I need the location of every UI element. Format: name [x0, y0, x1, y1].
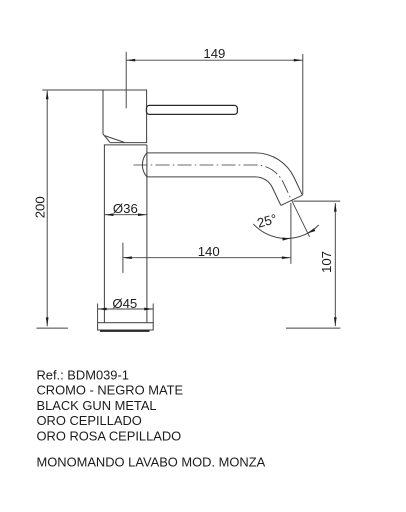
dimension D45 left arrow [98, 308, 107, 311]
dimension 107 top extension line [293, 200, 340, 202]
dimension D36 left arrow [105, 213, 114, 216]
dimension 149 right extension line [302, 54, 304, 195]
dimension 107 top arrow [334, 203, 337, 212]
svg-text:Ø36: Ø36 [113, 201, 138, 216]
dimension D45 left extension line [97, 304, 99, 323]
svg-text:MONOMANDO LAVABO MOD. MONZA: MONOMANDO LAVABO MOD. MONZA [37, 454, 266, 469]
dimension 200 bottom extension line [37, 327, 68, 329]
svg-text:107: 107 [319, 251, 334, 273]
svg-text:149: 149 [203, 46, 225, 61]
dimension 140 line [123, 257, 291, 259]
dimension 107 bottom arrow [334, 317, 337, 326]
base plate [98, 323, 154, 332]
dimension 140 left tick [122, 243, 124, 273]
dimension 107 bottom extension line [286, 327, 340, 329]
angle 25 arc [253, 224, 318, 239]
svg-text:Ref.: BDM039-1: Ref.: BDM039-1 [37, 367, 129, 382]
dimension D45 right arrow [144, 308, 153, 311]
dimension 149 left extension line [125, 52, 127, 109]
angle 25 arrow at diagonal leg [307, 228, 315, 233]
dimension D45 line [98, 308, 154, 310]
svg-text:CROMO - NEGRO MATE: CROMO - NEGRO MATE [37, 383, 184, 398]
faucet head (cartridge housing) [103, 90, 147, 143]
dimension 200 top extension line [42, 89, 103, 91]
spout tube [147, 153, 303, 206]
dimension 140 right extension line / angle leg vertical [290, 203, 292, 264]
dimension D36 right arrow [138, 213, 147, 216]
spout centerline (dash-dot) [134, 165, 292, 200]
dimension 140 left arrow [123, 256, 132, 259]
dimension 200 line [46, 91, 48, 326]
dimension 140 right arrow [282, 256, 291, 259]
centerline extension 25 deg leg [292, 200, 310, 236]
dimension 149 line [126, 59, 303, 61]
dimension 107 line [334, 203, 336, 326]
dimension D36 line [105, 214, 148, 216]
svg-text:ORO CEPILLADO: ORO CEPILLADO [37, 413, 142, 428]
svg-text:BLACK GUN METAL: BLACK GUN METAL [37, 398, 157, 413]
dimension 200 bottom arrow [46, 317, 49, 326]
spout-body joint arc [142, 153, 147, 177]
svg-text:140: 140 [198, 244, 220, 259]
angle 25 arrow at vertical leg [282, 238, 291, 241]
reference text block [37, 367, 266, 469]
dimension 149 right arrow [294, 59, 303, 62]
svg-text:200: 200 [32, 196, 47, 218]
svg-text:ORO ROSA CEPILLADO: ORO ROSA CEPILLADO [37, 429, 182, 444]
dimension D45 right extension line [152, 304, 154, 323]
dimension 149 left arrow [126, 59, 135, 62]
faucet body (column) [104, 145, 147, 323]
lever handle [146, 105, 237, 114]
svg-text:Ø45: Ø45 [112, 296, 137, 311]
dimension 200 top arrow [46, 90, 49, 99]
